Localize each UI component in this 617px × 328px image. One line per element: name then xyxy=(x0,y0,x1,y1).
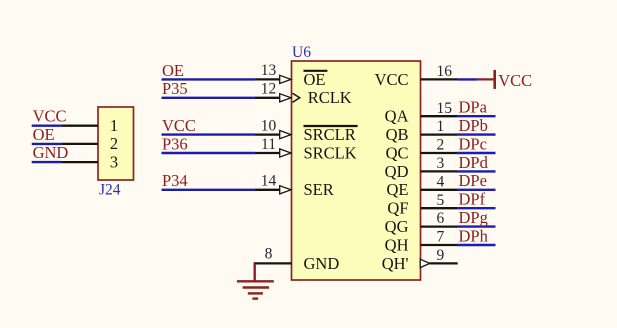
overline for SRCLR xyxy=(304,125,358,127)
IC U6 body xyxy=(292,61,421,280)
svg-text:15: 15 xyxy=(437,100,453,117)
U6 pin 2 (QC) xyxy=(421,152,458,154)
svg-text:GND: GND xyxy=(304,254,340,273)
svg-text:10: 10 xyxy=(261,117,277,134)
svg-text:P35: P35 xyxy=(162,79,188,98)
connector J24 pin 1 xyxy=(61,125,98,127)
wire net OE to J24 pin 2 xyxy=(32,143,62,145)
svg-text:QA: QA xyxy=(385,107,409,126)
U6 pin 11 (SRCLK) xyxy=(255,152,283,154)
svg-text:2: 2 xyxy=(110,134,118,153)
svg-text:6: 6 xyxy=(437,210,445,227)
wire net DPa from U6 pin 15 xyxy=(457,115,496,117)
svg-text:DPf: DPf xyxy=(459,190,486,209)
svg-text:RCLK: RCLK xyxy=(308,88,352,107)
wire net DPd from U6 pin 3 xyxy=(457,170,496,172)
svg-text:P34: P34 xyxy=(162,171,188,190)
svg-text:QG: QG xyxy=(385,217,409,236)
svg-text:SRCLK: SRCLK xyxy=(304,143,357,162)
svg-text:P36: P36 xyxy=(162,134,188,153)
U6 pin 9 (QH') output arrow xyxy=(420,259,430,267)
U6 pin 1 (QB) xyxy=(421,133,458,135)
wire net DPh from U6 pin 7 xyxy=(457,244,496,246)
svg-text:12: 12 xyxy=(261,81,277,98)
wire net DPg from U6 pin 6 xyxy=(457,225,496,227)
U6 pin 7 (QH) xyxy=(421,244,458,246)
wire net DPe from U6 pin 4 xyxy=(457,189,496,191)
wire net DPb from U6 pin 1 xyxy=(457,133,496,135)
U6 pin 9 (QH') wire stub xyxy=(430,262,458,264)
svg-text:QC: QC xyxy=(386,143,409,162)
connector J24 pin 2 xyxy=(61,143,98,145)
wire net DPf from U6 pin 5 xyxy=(457,207,496,209)
svg-text:8: 8 xyxy=(265,246,273,263)
svg-text:U6: U6 xyxy=(292,44,311,61)
svg-text:11: 11 xyxy=(261,136,276,153)
svg-text:QB: QB xyxy=(386,125,409,144)
wire net VCC from U6 pin 16 xyxy=(457,78,477,80)
svg-text:DPh: DPh xyxy=(459,226,489,245)
U6 pin 4 (QE) xyxy=(421,189,458,191)
U6 pin 3 (QD) xyxy=(421,170,458,172)
wire net VCC to U6 pin 10 xyxy=(162,133,255,135)
wire net P35 to U6 pin 12 xyxy=(162,97,255,99)
svg-text:VCC: VCC xyxy=(498,71,532,90)
svg-text:1: 1 xyxy=(110,116,118,135)
svg-text:SRCLR: SRCLR xyxy=(304,125,356,144)
svg-text:GND: GND xyxy=(33,143,69,162)
wire net VCC to J24 pin 1 xyxy=(32,124,62,126)
wire net P36 to U6 pin 11 xyxy=(162,152,255,154)
U6 pin 14 (SER) xyxy=(255,189,283,191)
svg-text:OE: OE xyxy=(33,125,55,144)
svg-text:2: 2 xyxy=(437,137,445,154)
svg-text:3: 3 xyxy=(110,152,118,171)
svg-text:13: 13 xyxy=(261,62,277,79)
svg-text:OE: OE xyxy=(162,61,184,80)
svg-text:SER: SER xyxy=(304,180,334,199)
svg-text:QD: QD xyxy=(385,162,409,181)
clock symbol at pin 12 xyxy=(293,93,300,102)
svg-text:QF: QF xyxy=(387,199,408,218)
svg-text:DPe: DPe xyxy=(459,171,487,190)
U6 pin 16 (VCC) xyxy=(421,78,458,80)
svg-text:16: 16 xyxy=(437,63,453,80)
svg-text:DPc: DPc xyxy=(459,134,487,153)
svg-text:QE: QE xyxy=(387,180,409,199)
svg-text:4: 4 xyxy=(437,173,445,190)
U6 pin 10 (SRCLR) xyxy=(255,133,283,135)
overline for OE xyxy=(304,70,328,72)
svg-text:VCC: VCC xyxy=(33,107,67,126)
svg-text:DPb: DPb xyxy=(459,116,488,135)
U6 pin 6 (QG) xyxy=(421,225,458,227)
U6 pin 5 (QF) xyxy=(421,207,458,209)
svg-text:QH: QH xyxy=(385,235,409,254)
svg-text:3: 3 xyxy=(437,155,445,172)
svg-text:OE: OE xyxy=(304,70,326,89)
svg-text:VCC: VCC xyxy=(162,116,196,135)
U6 pin 8 (GND) xyxy=(254,262,292,264)
U6 pin 13 (OE) xyxy=(255,78,283,80)
svg-text:DPg: DPg xyxy=(459,208,488,227)
wire net OE to U6 pin 13 xyxy=(162,78,255,80)
svg-text:7: 7 xyxy=(437,229,445,246)
svg-text:5: 5 xyxy=(437,192,445,209)
svg-text:9: 9 xyxy=(437,247,445,264)
svg-text:DPd: DPd xyxy=(459,153,489,172)
U6 pin 15 (QA) xyxy=(421,115,458,117)
U6 pin 12 (RCLK) xyxy=(255,97,283,99)
wire net GND to J24 pin 3 xyxy=(32,161,62,163)
svg-text:14: 14 xyxy=(261,173,277,190)
svg-text:J24: J24 xyxy=(99,182,121,199)
svg-text:QH': QH' xyxy=(382,254,409,273)
svg-text:DPa: DPa xyxy=(459,98,488,117)
connector J24 body xyxy=(98,107,134,180)
svg-text:1: 1 xyxy=(437,118,445,135)
ground symbol xyxy=(237,263,274,298)
svg-text:VCC: VCC xyxy=(375,70,409,89)
wire net DPc from U6 pin 2 xyxy=(457,152,496,154)
connector J24 pin 3 xyxy=(61,161,98,163)
wire net P34 to U6 pin 14 xyxy=(162,189,255,191)
power port VCC (bar) xyxy=(477,70,495,89)
